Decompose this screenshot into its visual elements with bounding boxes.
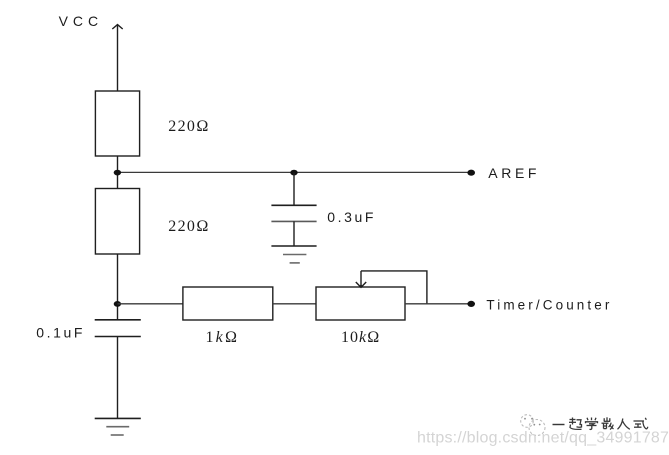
wire R1 bottom to AREF node: [117, 156, 119, 189]
svg-text:10kΩ: 10kΩ: [341, 329, 380, 346]
wire C 0.1uF bottom lead: [117, 337, 119, 419]
watermark logo circles: [521, 415, 545, 436]
wire node to R3: [118, 303, 183, 305]
svg-text:1kΩ: 1kΩ: [206, 329, 240, 346]
VCC power arrow: [112, 25, 122, 91]
svg-text:https://blog.csdn.net/qq_34991: https://blog.csdn.net/qq_34991787: [417, 430, 669, 447]
wire R2 bottom to lower node: [117, 254, 119, 320]
svg-text:220Ω: 220Ω: [168, 118, 210, 135]
watermark CJK char yi: [553, 424, 565, 426]
watermark CJK char qian: [602, 417, 614, 429]
AREF terminal dot: [467, 170, 475, 176]
svg-text:0.1uF: 0.1uF: [36, 325, 85, 341]
ground for 0.1uF: [95, 418, 141, 435]
resistor R1 220ohm: [95, 91, 139, 156]
svg-text:0.3uF: 0.3uF: [327, 209, 376, 225]
watermark CJK char ru: [618, 419, 630, 430]
svg-text:Timer/Counter: Timer/Counter: [486, 297, 612, 312]
watermark CJK char shi: [634, 418, 648, 429]
watermark logo eye marks: [524, 418, 541, 426]
wire C3 top lead: [293, 172, 295, 205]
Timer/Counter terminal dot: [467, 301, 475, 307]
wire R3 to R4: [273, 303, 316, 305]
wire R4 to output: [405, 303, 470, 305]
capacitor C 0.3uF: [271, 205, 316, 221]
watermark CJK char qi: [569, 418, 582, 430]
resistor R2 220ohm: [95, 189, 139, 255]
wiper arrow tip fill: [358, 284, 364, 287]
node junction at R1/R2: [114, 170, 121, 176]
svg-text:AREF: AREF: [488, 165, 540, 181]
svg-text:220Ω: 220Ω: [168, 218, 210, 235]
wire C 0.3uF bottom lead: [293, 221, 295, 246]
node junction at C 0.3uF: [290, 170, 297, 176]
capacitor C 0.1uF: [95, 320, 141, 337]
svg-text:VCC: VCC: [59, 13, 104, 29]
wiper feedback wire: [361, 271, 427, 304]
potentiometer R4 10kohm body: [316, 287, 405, 320]
resistor R3 1kohm: [183, 287, 273, 320]
potentiometer wiper arrow: [356, 271, 366, 288]
node junction lower: [114, 301, 121, 307]
wire AREF horizontal: [118, 171, 471, 173]
watermark CJK char xue: [586, 418, 598, 430]
ground for 0.3uF: [271, 246, 316, 263]
